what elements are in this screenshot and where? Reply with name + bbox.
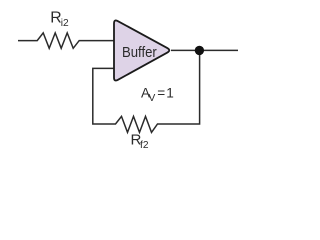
svg-text:V: V (149, 93, 156, 104)
svg-text:i2: i2 (61, 18, 69, 29)
svg-text:f2: f2 (140, 140, 149, 151)
svg-text:Buffer: Buffer (122, 44, 157, 61)
svg-text:=: = (157, 85, 165, 100)
svg-text:1: 1 (166, 85, 174, 100)
